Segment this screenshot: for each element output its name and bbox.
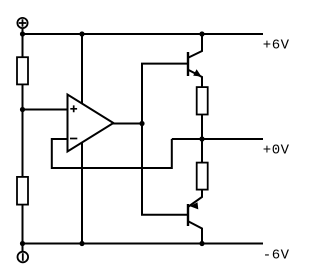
wire bottom rail -6V (23, 243, 264, 245)
junction supply top (79, 31, 84, 36)
junction bottom-left (20, 241, 25, 246)
wire middle rail +0V (172, 138, 263, 140)
wire op-amp output (112, 123, 142, 125)
wire emitter Q1 to R3 (189, 70, 202, 87)
svg-text:+6V: +6V (263, 37, 290, 53)
junction top-left (20, 31, 25, 36)
wire feedback loop (52, 139, 172, 168)
junction supply bottom (79, 241, 84, 246)
wire collector Q2 to -6V (189, 222, 202, 244)
transistor Q2 PNP (188, 202, 198, 226)
svg-text:+0V: +0V (263, 143, 290, 159)
battery negative terminal (18, 252, 29, 263)
junction op-amp output (139, 121, 144, 126)
wire R4 to emitter Q2 (189, 190, 202, 207)
wire non-inverting input (23, 109, 69, 111)
junction collector Q2 (199, 241, 204, 246)
wire op-amp supply vertical (81, 34, 83, 244)
resistor R1 (17, 57, 28, 84)
junction divider midpoint (20, 107, 25, 112)
wire collector Q1 to +6V (189, 34, 202, 58)
op-amp U1 (68, 95, 114, 152)
wire left rail (22, 29, 24, 252)
resistor R4 (197, 163, 208, 190)
wire base drive vertical (142, 64, 188, 215)
junction collector Q1 (199, 31, 204, 36)
wire top rail +6V (23, 33, 264, 35)
transistor Q1 NPN (188, 52, 202, 77)
wire R3 to node to R4 (201, 115, 203, 164)
resistor R2 (17, 177, 28, 205)
junction output node (199, 136, 204, 141)
resistor R3 (197, 87, 208, 114)
svg-text:-6V: -6V (263, 247, 290, 263)
battery positive terminal (17, 18, 27, 28)
